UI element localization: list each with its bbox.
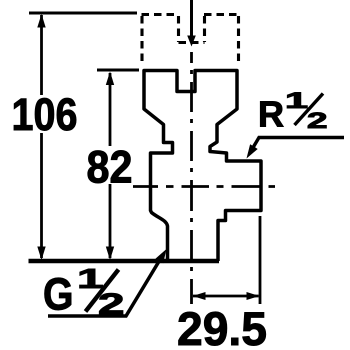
hidden handle outline (dashed): [142, 15, 241, 62]
svg-text:82: 82: [87, 142, 133, 193]
extension line right (outlet face, for 29.5): [259, 216, 262, 304]
extension line 82 (top of bonnet): [97, 69, 139, 72]
R 1/2 leader line with arrow: [250, 138, 345, 154]
horizontal centerline: [133, 185, 275, 188]
svg-text:29.5: 29.5: [177, 302, 267, 350]
valve body outline: [144, 71, 261, 262]
top extension line (top of handle, for 106): [29, 12, 137, 15]
dimension line 29.5: [193, 295, 259, 298]
svg-text:106: 106: [12, 89, 78, 140]
svg-text:1: 1: [285, 88, 308, 113]
svg-text:G: G: [43, 269, 74, 320]
vertical centerline with flow arrow: [190, 0, 193, 37]
dimension line 106: [40, 15, 43, 258]
dimension line 82: [109, 73, 112, 258]
svg-text:2: 2: [307, 108, 328, 133]
svg-text:R: R: [258, 94, 284, 135]
bottom base line (valve seat face + extension line): [29, 259, 220, 263]
G 1/2 leader line with arrow: [48, 258, 161, 316]
